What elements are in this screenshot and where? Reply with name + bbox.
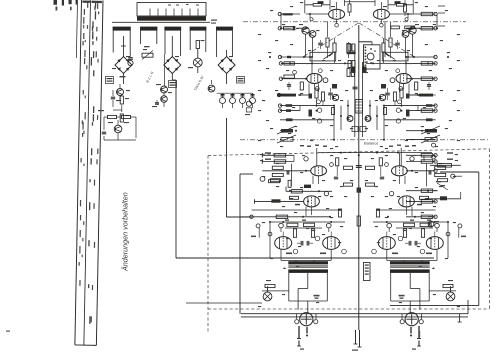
output tube V6L	[315, 236, 346, 254]
cathode drop V2L	[309, 84, 319, 96]
splitter wire y222 L	[269, 221, 345, 258]
driver grid caps L	[297, 241, 313, 246]
coupling cap row2 R	[385, 22, 415, 57]
secondary winding S1	[113, 27, 131, 55]
HT distribution wire y152.6	[318, 152, 432, 166]
tone cluster circles L	[309, 87, 335, 124]
tube V3L	[304, 157, 334, 176]
amplifier centre rail	[358, 25, 360, 330]
rail resistor pair L	[347, 69, 358, 132]
anode resistor top R	[388, 0, 413, 13]
mains bus wire B (y=316.9)	[241, 316, 468, 318]
treble pot row R	[406, 155, 453, 163]
center cap y88	[353, 87, 358, 89]
filter network under S1	[111, 90, 129, 122]
labels row y146 L	[300, 145, 327, 166]
volume pot L	[277, 126, 296, 134]
chassis box right top	[440, 171, 479, 173]
top-left part number text (rotated)	[54, 0, 78, 11]
dark diode marks L	[332, 67, 356, 89]
volume pot R	[406, 126, 440, 134]
electrolytic cap bank C205-C208	[217, 93, 256, 108]
dashed enclosure top edge	[208, 149, 490, 156]
pilot lamp resistor R202	[196, 40, 204, 49]
transformer core line	[112, 20, 217, 24]
rail link wire R	[366, 62, 406, 72]
bottom-left page mark	[6, 331, 10, 332]
motor wiring L	[297, 314, 317, 319]
output tube drops R	[387, 232, 437, 264]
output tube V5L	[251, 224, 298, 254]
V3 input resistors L	[270, 166, 288, 182]
center ladder connector	[355, 100, 362, 114]
screen resistor V1L	[348, 0, 351, 16]
dropper resistor R201	[142, 46, 153, 60]
regulator transistors T202 T203	[156, 54, 172, 107]
bridge rectifier GR1	[112, 36, 132, 84]
V3 input resistors R	[429, 166, 447, 182]
treble pot row L	[262, 155, 294, 164]
connector jack left edge	[245, 101, 252, 115]
wire row y210 R	[376, 209, 435, 217]
regulator transistor T201	[116, 84, 130, 101]
cathode transistor R	[379, 94, 385, 100]
output transformer L secondary box	[289, 273, 328, 313]
coupling cap row2 L	[288, 26, 306, 31]
power transformer primary terminal box	[137, 3, 206, 17]
splitter resistors L	[285, 220, 315, 238]
pilot lamp R	[446, 286, 455, 301]
dashed enclosure bottom edge	[208, 308, 490, 310]
right edge stub wires	[438, 6, 445, 26]
wire row y190 R	[406, 189, 436, 192]
centre rail right twin	[361, 62, 363, 137]
resistor near transformer R	[429, 280, 456, 292]
tube V4L wiring	[255, 196, 312, 216]
bridge rectifier GR3	[218, 50, 235, 84]
input jack row2 R	[406, 27, 437, 30]
motor unit R	[400, 313, 423, 326]
component value labels L	[258, 2, 353, 307]
label 'Aenderungen vorbehalten'	[121, 192, 130, 272]
center resistor y218	[357, 216, 360, 226]
row y119.8 L	[280, 118, 334, 121]
tube V2L grid wire	[279, 70, 328, 82]
output tube V6R	[372, 236, 403, 254]
right edge resistor row y165	[430, 155, 461, 167]
center verticals L	[334, 100, 348, 140]
right edge diode cluster	[434, 181, 448, 191]
indicator meter box	[359, 42, 380, 69]
bass pot row L	[262, 152, 294, 157]
interconnect label box	[364, 263, 371, 281]
driver triode pins R	[387, 223, 450, 236]
grid wire row1 R	[389, 14, 437, 28]
resistor near transformer L	[262, 280, 289, 292]
V3 center components L	[334, 158, 353, 186]
chassis box right vertical	[478, 172, 480, 306]
bias network L	[318, 22, 336, 64]
bus row y106 L	[278, 104, 335, 107]
secondary winding S5	[216, 27, 233, 57]
bass pot row R	[406, 152, 453, 157]
output transformer R secondary box	[391, 273, 430, 313]
right edge pin circle	[432, 143, 436, 147]
output tube V5R	[420, 224, 466, 254]
right edge wire y199	[427, 192, 461, 200]
tube V1L	[329, 2, 345, 27]
tube V3R	[385, 157, 415, 176]
aux regulator sub-circuit	[98, 110, 136, 140]
right edge transistor	[428, 216, 439, 227]
dark resistor row y95 R	[406, 94, 436, 97]
secondary winding S3	[164, 27, 181, 56]
motor pins R	[410, 326, 421, 350]
rail link wire L	[312, 62, 352, 72]
rail resistor pair R	[360, 116, 371, 132]
coupling wire y228 L	[285, 227, 322, 229]
junction dots R	[369, 27, 449, 223]
bus row y106 R	[383, 104, 437, 107]
motor unit L	[295, 313, 318, 326]
cap below row y63 R	[427, 82, 431, 90]
dark label top R	[395, 1, 401, 4]
GMD label plate 2	[169, 81, 177, 88]
wire row y57 L	[278, 55, 313, 73]
dark label top L	[318, 1, 324, 4]
bottom right drop wires	[458, 300, 469, 322]
tone cluster circles R	[384, 87, 410, 124]
splitter wire y222 R	[373, 221, 449, 258]
wire row y63 L	[279, 62, 313, 65]
center cap y166	[356, 154, 362, 167]
tube V4R wiring	[406, 196, 437, 216]
pilot lamp L	[263, 286, 272, 301]
grid wire row1 L	[281, 14, 329, 28]
secondary winding S4	[190, 27, 207, 52]
junction dots L	[269, 27, 349, 223]
dashed enclosure left edge	[207, 156, 209, 333]
tube V2R	[396, 74, 411, 84]
output transformer R windings	[390, 261, 435, 273]
channel divider diagonal right	[359, 23, 414, 57]
tube V4R	[389, 191, 414, 206]
tube V4L	[304, 191, 329, 206]
motor pins L	[297, 326, 308, 350]
center verticals R	[370, 100, 384, 140]
parts list table frame	[71, 0, 103, 345]
label Balance	[364, 141, 379, 146]
supply bus wire (vertical x=176)	[175, 80, 177, 258]
wire row y190 L	[269, 180, 333, 193]
plate load resistors L	[300, 82, 333, 106]
rectifier label plate GMD1	[106, 77, 114, 84]
filter cap C201	[128, 55, 133, 66]
coupling wire y228 R	[396, 227, 433, 229]
center bottom connector pins	[352, 330, 362, 351]
power transformer primary winding	[137, 17, 206, 21]
secondary winding S2	[140, 27, 157, 44]
wire row y63 R	[405, 62, 437, 65]
feedback row y217 R	[387, 215, 437, 218]
driver grid caps R	[405, 241, 421, 246]
transistor pair R	[402, 24, 419, 57]
screen resistor V1R	[404, 0, 407, 16]
balance pot R	[406, 135, 440, 143]
input jack row1 L	[278, 12, 311, 15]
motor wiring R	[402, 314, 422, 319]
center cap y190	[357, 185, 361, 193]
dark resistor row y95 L	[277, 93, 312, 96]
tube V3L wiring	[260, 171, 319, 184]
right edge terminal y176	[451, 174, 462, 178]
label TrKw	[193, 74, 205, 91]
top wire across center	[345, 0, 376, 6]
trimmer box L	[310, 52, 336, 61]
V3 center components R	[366, 158, 385, 186]
plate load resistors R	[385, 82, 418, 106]
input jack row1 R	[406, 12, 437, 15]
splitter resistors R	[403, 220, 431, 238]
bias network R	[382, 22, 400, 64]
feedback row y217 L	[240, 215, 331, 218]
row y119.8 R	[384, 118, 436, 121]
balance pot L	[277, 135, 296, 143]
channel divider diagonal left	[304, 23, 359, 57]
wire stub bottom-left	[186, 302, 262, 304]
chassis dash-dot line middle	[240, 139, 489, 141]
centre rail left twin	[354, 45, 356, 137]
tube V1R	[373, 2, 389, 27]
driver triode pins L	[268, 223, 331, 236]
chassis box right bottom	[390, 305, 479, 307]
bottom edge mark right	[419, 331, 420, 337]
cap below row y63 L	[287, 82, 291, 90]
bridge rectifier GR2	[164, 36, 181, 80]
wire row y111 R	[406, 106, 437, 113]
centre rail resistor pairs	[347, 44, 356, 68]
shield box wire (x=240)	[240, 174, 253, 314]
wire row y210 L	[252, 209, 342, 217]
tube V3R wiring	[399, 169, 437, 184]
dashed enclosure right edge	[489, 149, 491, 309]
cathode transistor L	[332, 94, 338, 100]
transistor pair L	[299, 24, 320, 57]
GMD label plate 3	[237, 77, 245, 84]
parts list table text rows	[76, 1, 102, 324]
component value labels R	[365, 2, 460, 307]
dial lamp L1	[188, 49, 202, 73]
dark diode marks R	[363, 67, 387, 89]
cathode drop V2R	[400, 84, 410, 96]
anode resistor top L	[305, 0, 330, 13]
svg-text:Balance: Balance	[364, 141, 379, 146]
input jack row2 L	[278, 27, 307, 30]
svg-text:Änderungen vorbehalten: Änderungen vorbehalten	[121, 192, 130, 272]
trimmer box R	[382, 52, 408, 61]
vertical feed R	[426, 164, 428, 187]
wire row y111 L	[278, 106, 300, 113]
zener diode D201	[152, 100, 159, 107]
supply bus wire (horizontal y=258)	[176, 257, 434, 259]
shield box wire left (x=226.5)	[227, 118, 253, 217]
vertical feed L	[290, 164, 292, 187]
tube V2L	[307, 74, 322, 84]
transistor T204	[208, 80, 215, 92]
label B-Z-LR	[145, 70, 154, 83]
tube V2R grid wire	[390, 77, 437, 83]
output tube drops L	[281, 232, 331, 264]
mains bus wire A (y=313.7)	[241, 313, 468, 315]
wire row y57 R	[405, 55, 437, 73]
grid stopper L	[347, 42, 350, 58]
labels row y146 R	[389, 145, 416, 166]
output transformer L windings	[283, 261, 328, 273]
chassis dash-dot line top	[243, 21, 466, 23]
